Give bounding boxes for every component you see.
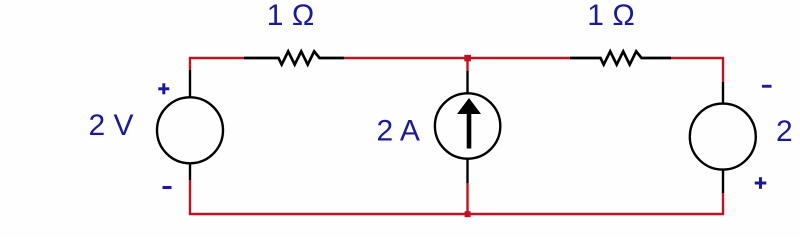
- wire top-left segment: [190, 58, 244, 70]
- svg-text:2 V: 2 V: [89, 109, 134, 142]
- svg-text:2 A: 2 A: [377, 115, 420, 148]
- voltage source V2 (2 V, right): [690, 82, 756, 193]
- resistor R2 (1 ohm, right): [570, 51, 671, 64]
- wire current source bottom stub to node B: [466, 183, 468, 215]
- resistor R1 (1 ohm, left): [244, 51, 344, 64]
- V1 plus sign: [158, 83, 169, 94]
- wire top-middle segment: [344, 57, 570, 59]
- voltage source V1 (2 V): [157, 70, 223, 180]
- svg-text:1 Ω: 1 Ω: [267, 0, 314, 32]
- node A junction dot: [464, 55, 471, 62]
- current source I1 (2 A): [435, 71, 500, 183]
- node B junction dot: [465, 211, 471, 217]
- V2 minus sign: [762, 85, 772, 88]
- wire bottom segment: [190, 180, 723, 214]
- V2 plus sign: [755, 177, 767, 189]
- I1 arrow (pointing up): [457, 98, 481, 149]
- svg-text:1 Ω: 1 Ω: [587, 0, 634, 32]
- wire middle stub from node A down to current source: [466, 57, 468, 71]
- svg-text:2 V: 2 V: [776, 115, 800, 148]
- V1 minus sign: [163, 186, 172, 189]
- wire top-right segment: [671, 58, 723, 82]
